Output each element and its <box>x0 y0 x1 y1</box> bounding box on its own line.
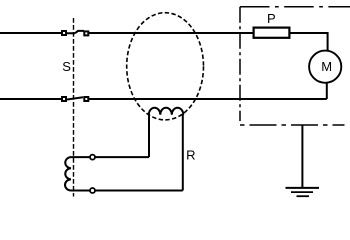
svg-text:M: M <box>321 59 332 74</box>
svg-text:P: P <box>267 11 276 26</box>
svg-text:S: S <box>62 59 71 74</box>
svg-text:R: R <box>186 148 195 163</box>
